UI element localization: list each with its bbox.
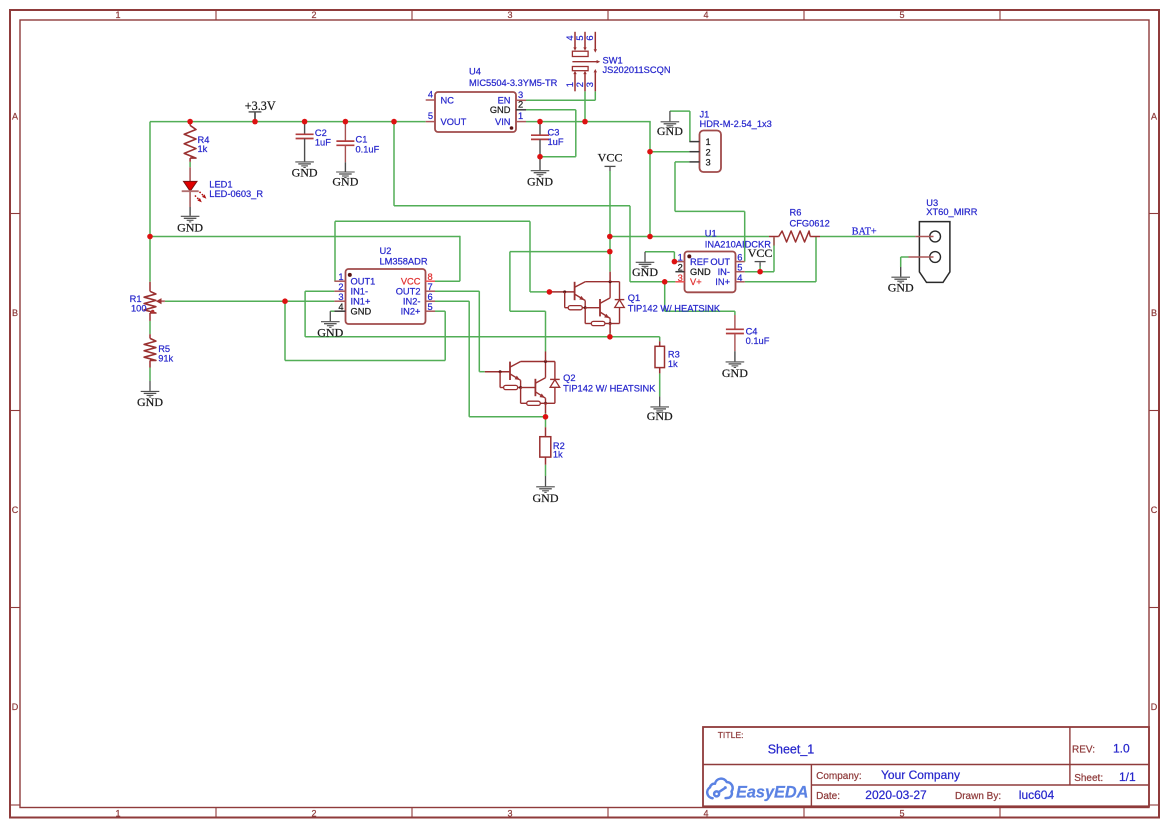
svg-text:Sheet_1: Sheet_1 xyxy=(768,743,815,757)
svg-text:A: A xyxy=(1151,112,1157,122)
svg-text:4: 4 xyxy=(338,302,343,312)
svg-text:GND: GND xyxy=(527,174,553,188)
svg-text:4: 4 xyxy=(737,273,742,283)
svg-text:D: D xyxy=(1151,702,1158,712)
svg-text:2: 2 xyxy=(678,263,683,273)
svg-text:U2: U2 xyxy=(380,246,392,256)
svg-text:IN1-: IN1- xyxy=(351,287,369,297)
svg-text:3: 3 xyxy=(585,82,595,87)
svg-text:8: 8 xyxy=(428,272,433,282)
svg-text:VOUT: VOUT xyxy=(441,117,467,127)
svg-text:MIC5504-3.3YM5-TR: MIC5504-3.3YM5-TR xyxy=(469,78,558,88)
svg-text:CFG0612: CFG0612 xyxy=(790,218,830,228)
svg-text:1k: 1k xyxy=(668,359,678,369)
svg-text:2020-03-27: 2020-03-27 xyxy=(865,788,927,802)
svg-text:GND: GND xyxy=(177,221,203,235)
svg-text:1: 1 xyxy=(518,111,523,121)
svg-text:LM358ADR: LM358ADR xyxy=(380,256,428,266)
svg-text:1: 1 xyxy=(706,137,711,147)
svg-text:OUT: OUT xyxy=(710,257,730,267)
svg-text:EN: EN xyxy=(498,96,511,106)
svg-text:C1: C1 xyxy=(356,134,368,144)
svg-text:LED-0603_R: LED-0603_R xyxy=(209,189,263,199)
svg-text:6: 6 xyxy=(428,292,433,302)
svg-text:TIP142 W/ HEATSINK: TIP142 W/ HEATSINK xyxy=(563,383,656,393)
svg-text:GND: GND xyxy=(632,265,658,279)
svg-text:Your Company: Your Company xyxy=(881,768,960,782)
svg-text:GND: GND xyxy=(888,281,914,295)
svg-text:3: 3 xyxy=(507,808,512,818)
svg-text:0.1uF: 0.1uF xyxy=(356,144,380,154)
svg-text:IN2+: IN2+ xyxy=(401,307,421,317)
svg-text:OUT1: OUT1 xyxy=(351,277,376,287)
svg-text:IN+: IN+ xyxy=(715,277,730,287)
svg-text:1uF: 1uF xyxy=(548,137,564,147)
svg-text:4: 4 xyxy=(703,808,708,818)
svg-text:+3.3V: +3.3V xyxy=(245,99,276,113)
svg-text:5: 5 xyxy=(899,808,904,818)
svg-text:J1: J1 xyxy=(700,109,710,119)
svg-text:VIN: VIN xyxy=(495,117,511,127)
svg-text:1: 1 xyxy=(115,808,120,818)
svg-text:GND: GND xyxy=(332,175,358,189)
svg-text:luc604: luc604 xyxy=(1019,788,1055,802)
svg-text:GND: GND xyxy=(647,409,673,423)
svg-text:TITLE:: TITLE: xyxy=(718,730,744,740)
svg-text:5: 5 xyxy=(428,111,433,121)
svg-text:4: 4 xyxy=(703,10,708,20)
svg-text:JS202011SCQN: JS202011SCQN xyxy=(603,65,671,75)
svg-text:XT60_MIRR: XT60_MIRR xyxy=(926,207,977,217)
svg-text:BAT+: BAT+ xyxy=(852,226,877,237)
svg-text:C: C xyxy=(12,505,19,515)
svg-text:7: 7 xyxy=(428,282,433,292)
svg-text:3: 3 xyxy=(678,273,683,283)
svg-text:V+: V+ xyxy=(690,277,702,287)
svg-text:100: 100 xyxy=(131,304,147,314)
svg-text:R1: R1 xyxy=(130,294,142,304)
svg-text:Sheet:: Sheet: xyxy=(1074,773,1103,784)
svg-text:2: 2 xyxy=(338,282,343,292)
svg-text:Date:: Date: xyxy=(816,791,840,802)
svg-text:EasyEDA: EasyEDA xyxy=(736,784,808,802)
svg-text:GND: GND xyxy=(292,166,318,180)
svg-text:2: 2 xyxy=(518,99,523,109)
svg-text:0.1uF: 0.1uF xyxy=(746,336,770,346)
svg-text:A: A xyxy=(12,112,18,122)
svg-text:5: 5 xyxy=(899,10,904,20)
svg-text:GND: GND xyxy=(317,325,343,339)
svg-text:1: 1 xyxy=(338,272,343,282)
svg-text:Q1: Q1 xyxy=(628,293,640,303)
svg-text:B: B xyxy=(1151,308,1157,318)
svg-text:Q2: Q2 xyxy=(563,373,575,383)
svg-text:IN-: IN- xyxy=(718,267,730,277)
svg-text:U1: U1 xyxy=(705,228,717,238)
svg-text:HDR-M-2.54_1x3: HDR-M-2.54_1x3 xyxy=(700,119,772,129)
svg-text:B: B xyxy=(12,308,18,318)
svg-text:6: 6 xyxy=(585,35,595,40)
svg-text:1k: 1k xyxy=(553,449,563,459)
svg-text:U4: U4 xyxy=(469,67,481,77)
svg-text:NC: NC xyxy=(441,95,455,105)
svg-text:3: 3 xyxy=(706,158,711,168)
svg-text:OUT2: OUT2 xyxy=(396,287,421,297)
svg-text:GND: GND xyxy=(137,395,163,409)
svg-text:2: 2 xyxy=(706,147,711,157)
svg-text:5: 5 xyxy=(737,263,742,273)
svg-text:Company:: Company: xyxy=(816,771,862,782)
svg-text:REF: REF xyxy=(690,257,709,267)
svg-text:GND: GND xyxy=(722,366,748,380)
svg-text:5: 5 xyxy=(575,35,585,40)
svg-text:IN2-: IN2- xyxy=(403,297,421,307)
svg-text:3: 3 xyxy=(507,10,512,20)
svg-text:1uF: 1uF xyxy=(315,138,331,148)
svg-text:6: 6 xyxy=(737,253,742,263)
svg-text:1: 1 xyxy=(115,10,120,20)
svg-text:2: 2 xyxy=(575,82,585,87)
svg-text:4: 4 xyxy=(428,90,433,100)
svg-text:5: 5 xyxy=(428,302,433,312)
svg-text:VCC: VCC xyxy=(401,277,421,287)
svg-text:2: 2 xyxy=(311,808,316,818)
svg-text:2: 2 xyxy=(311,10,316,20)
svg-text:R6: R6 xyxy=(790,208,802,218)
svg-text:D: D xyxy=(12,702,19,712)
svg-text:REV:: REV: xyxy=(1072,745,1095,756)
svg-text:Drawn By:: Drawn By: xyxy=(955,791,1001,802)
svg-text:GND: GND xyxy=(490,105,511,115)
svg-text:R5: R5 xyxy=(158,344,170,354)
svg-text:1.0: 1.0 xyxy=(1113,742,1130,756)
svg-text:C2: C2 xyxy=(315,128,327,138)
svg-text:1/1: 1/1 xyxy=(1119,770,1136,784)
svg-text:GND: GND xyxy=(690,267,711,277)
svg-text:GND: GND xyxy=(351,307,372,317)
svg-text:1k: 1k xyxy=(198,144,208,154)
svg-text:3: 3 xyxy=(338,292,343,302)
svg-text:VCC: VCC xyxy=(748,246,773,260)
svg-text:3: 3 xyxy=(518,90,523,100)
svg-text:91k: 91k xyxy=(158,353,173,363)
svg-text:IN1+: IN1+ xyxy=(351,297,371,307)
svg-text:1: 1 xyxy=(678,253,683,263)
svg-text:TIP142 W/ HEATSINK: TIP142 W/ HEATSINK xyxy=(628,303,721,313)
svg-text:GND: GND xyxy=(657,124,683,138)
svg-text:C: C xyxy=(1151,505,1158,515)
svg-text:1: 1 xyxy=(565,82,575,87)
svg-text:GND: GND xyxy=(533,491,559,505)
svg-text:4: 4 xyxy=(565,35,575,40)
svg-text:VCC: VCC xyxy=(598,151,623,165)
